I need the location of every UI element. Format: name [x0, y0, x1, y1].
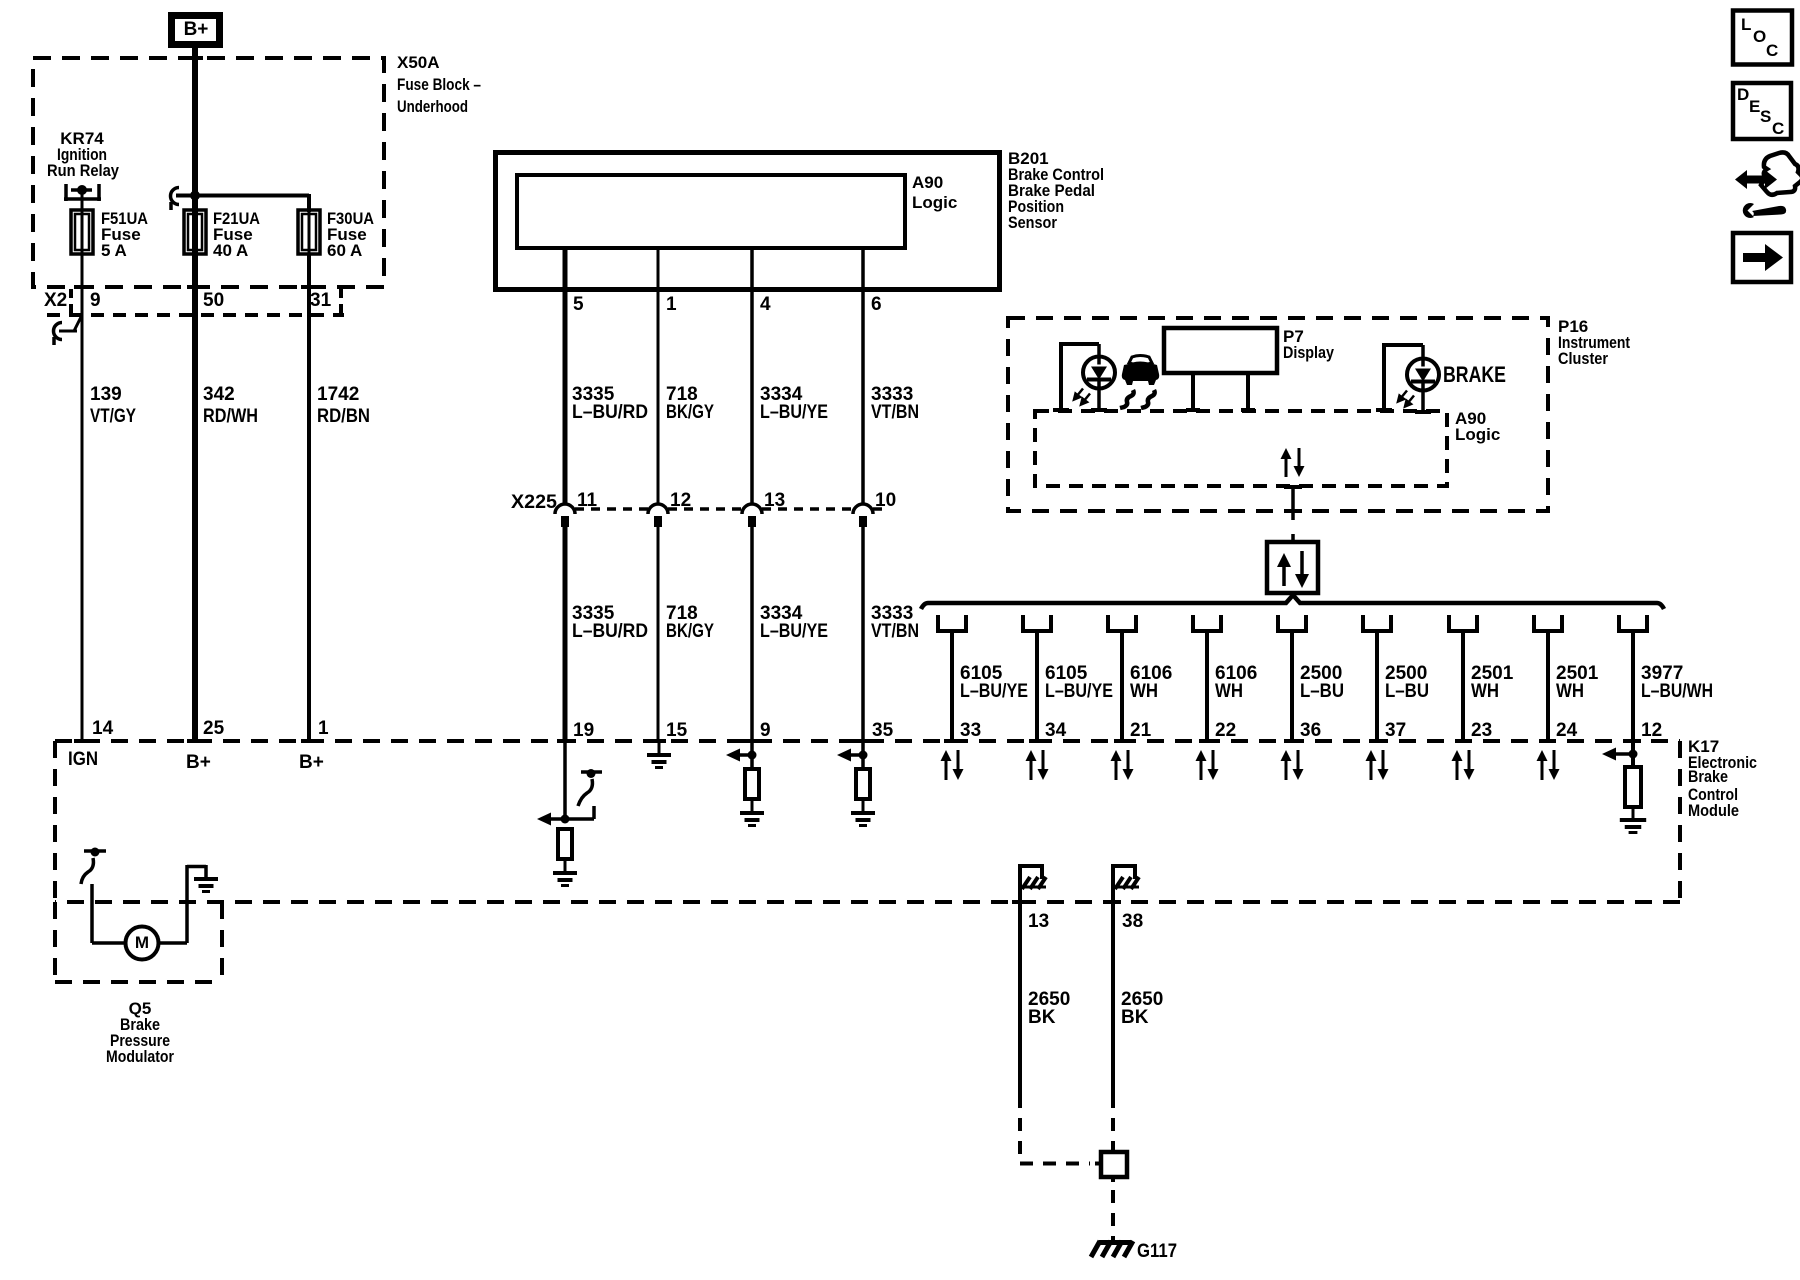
svg-text:14: 14: [92, 718, 114, 739]
svg-text:Modulator: Modulator: [106, 1047, 174, 1066]
logic block A90 dashed box in cluster: [1035, 411, 1447, 486]
wire from B201 pin 1 down to X225: [657, 248, 660, 504]
svg-text:21: 21: [1130, 720, 1152, 741]
svg-text:L–BU/YE: L–BU/YE: [1045, 681, 1113, 702]
BRAKE indicator lamp bracket: [1382, 343, 1423, 409]
label wire 2500 L–BU: [1300, 663, 1344, 702]
ground below pin 9: [740, 811, 764, 827]
tick at wire crossing K17 edge: [744, 739, 760, 743]
label wire 3334 L-BU/YE lower: [760, 603, 828, 642]
display P7 legs to A90: [1186, 373, 1255, 412]
svg-text:WH: WH: [1130, 681, 1158, 702]
pin 24 label at K17: [1556, 720, 1578, 741]
arrow and junction at pin 19: [537, 813, 594, 826]
ABS indicator lamp bracket: [1059, 342, 1099, 409]
tick at wire 342 crossing X50A bottom: [187, 285, 203, 289]
svg-text:BK: BK: [1028, 1007, 1056, 1028]
wire from B201 pin 4 down to X225: [750, 248, 754, 504]
label wire 3333 VT/BN upper: [871, 384, 919, 423]
display P7 box: [1164, 328, 1277, 373]
svg-text:24: 24: [1556, 720, 1578, 741]
svg-text:WH: WH: [1215, 681, 1243, 702]
label Q5 Brake Pressure Modulator: [106, 999, 174, 1066]
svg-text:A90: A90: [912, 173, 943, 192]
splice box node: [1095, 1147, 1127, 1182]
svg-text:15: 15: [666, 720, 688, 741]
label F51UA Fuse 5 A: [101, 209, 148, 260]
svg-text:1742: 1742: [317, 384, 359, 405]
svg-text:BK: BK: [1121, 1007, 1149, 1028]
ground at Q5 motor return: [194, 877, 218, 893]
label K17 Electronic Brake Control Module: [1688, 737, 1757, 820]
fuse F30UA: [298, 210, 320, 254]
tick at wire 1742 crossing X50A bottom: [301, 285, 317, 289]
resistor below pin 35: [856, 769, 870, 799]
wire 1742 from fuse F30UA down: [307, 254, 311, 741]
connector X225 terminal at wire 13: [742, 504, 762, 527]
tick at wire crossing K17 edge: [557, 739, 573, 743]
label KR74 Ignition Run Relay: [47, 129, 119, 180]
label wire 6106 WH: [1215, 663, 1257, 702]
svg-text:B+: B+: [299, 752, 324, 773]
svg-text:L–BU/YE: L–BU/YE: [760, 621, 828, 642]
wire 139 jog and terminal curl below X2: [54, 315, 83, 345]
diagnostic car and wrench icon: [1735, 152, 1800, 218]
module K17 dashed box: [55, 741, 1680, 902]
tick at bus drop crossing K17 edge: [1625, 739, 1641, 743]
ground below pin 12: [1620, 818, 1646, 834]
label wire 2501 WH: [1471, 663, 1514, 702]
svg-text:L–BU/RD: L–BU/RD: [572, 621, 648, 642]
svg-text:BRAKE: BRAKE: [1443, 362, 1506, 387]
bus drop terminal bracket at pin 22: [1191, 615, 1223, 631]
wire 6106 from bus to K17 pin 22: [1205, 631, 1209, 741]
pin 19 label at K17: [573, 720, 594, 741]
connector X2 right end cap: [339, 289, 343, 313]
wire 2650 dashed to splice from pin 38: [1111, 1095, 1115, 1147]
label A90 Logic inside B201: [912, 173, 957, 212]
label X2: [44, 290, 67, 311]
pin 15 label at K17: [666, 720, 688, 741]
svg-text:WH: WH: [1556, 681, 1584, 702]
dashed wire splice to ground G117: [1111, 1190, 1115, 1240]
svg-text:RD/WH: RD/WH: [203, 406, 258, 427]
fuse block X50A dashed box: [33, 58, 384, 287]
wire from X225 down to module K17: [861, 526, 865, 741]
bidirectional arrows below pin 37: [1366, 750, 1389, 780]
svg-text:L–BU: L–BU: [1300, 681, 1344, 702]
DESC reference box: [1733, 83, 1791, 139]
svg-text:L–BU: L–BU: [1385, 681, 1429, 702]
case ground hook at pin 38: [1111, 864, 1139, 902]
pin 13 label: [1028, 911, 1049, 932]
ABS indicator LED: [1074, 356, 1115, 405]
svg-text:5: 5: [573, 294, 584, 315]
wire 139 from fuse F51UA down to X2: [81, 254, 84, 316]
connector X225 dashed links: [575, 507, 886, 511]
label wire 2501 WH: [1556, 663, 1599, 702]
wire motor to ground riser: [158, 865, 206, 943]
tick at bus drop crossing K17 edge: [944, 739, 960, 743]
svg-text:B+: B+: [184, 19, 209, 40]
logic block A90 inner box of B201: [517, 175, 905, 248]
svg-text:Fuse Block –: Fuse Block –: [397, 75, 481, 94]
next page arrow box: [1733, 233, 1791, 282]
arrow junction at pin 9 internal: [726, 741, 757, 769]
wire 139 down to module pin 14: [81, 316, 84, 741]
bus drop terminal bracket at pin 36: [1276, 615, 1308, 631]
svg-text:D: D: [1737, 85, 1749, 104]
pin 23 label at K17: [1471, 720, 1492, 741]
BRAKE indicator LED: [1398, 358, 1439, 407]
svg-text:4: 4: [760, 294, 771, 315]
svg-text:Sensor: Sensor: [1008, 213, 1057, 232]
label X225: [511, 492, 557, 513]
svg-text:B+: B+: [186, 752, 211, 773]
wire 2500 from bus to K17 pin 36: [1290, 631, 1294, 741]
case ground hook at pin 13: [1018, 864, 1046, 902]
wire from X225 down to module K17: [657, 526, 660, 741]
svg-text:6: 6: [871, 294, 882, 315]
svg-text:M: M: [135, 933, 149, 952]
svg-text:1: 1: [666, 294, 677, 315]
svg-text:RD/BN: RD/BN: [317, 406, 370, 427]
svg-text:L–BU/RD: L–BU/RD: [572, 402, 648, 423]
wire from X225 down to module K17: [750, 526, 754, 741]
tick at bus drop crossing K17 edge: [1455, 739, 1471, 743]
label F30UA Fuse 60 A: [327, 209, 374, 260]
node B+ battery feed terminal box: [172, 16, 220, 45]
tick at wire crossing K17 edge: [650, 739, 666, 743]
pin 1 label: [318, 718, 329, 739]
connector X225 terminal at wire 12: [648, 504, 668, 527]
svg-text:Display: Display: [1283, 343, 1334, 362]
label B+ at pin 25: [186, 752, 211, 773]
pin 4 label at B201: [760, 294, 771, 315]
serial data arrows inside A90: [1281, 448, 1305, 477]
bus drop terminal bracket at pin 37: [1361, 615, 1393, 631]
svg-text:VT/BN: VT/BN: [871, 402, 919, 423]
svg-text:38: 38: [1122, 911, 1143, 932]
label A90 Logic in cluster: [1455, 409, 1500, 444]
label wire 3977 L–BU/WH: [1641, 663, 1713, 702]
connector X2 lower dashed line: [47, 313, 344, 317]
tick at bus drop crossing K17 edge: [1369, 739, 1385, 743]
label wire 3335 L-BU/RD lower: [572, 603, 648, 642]
svg-text:5 A: 5 A: [101, 241, 127, 260]
svg-text:C: C: [1766, 41, 1778, 60]
svg-text:IGN: IGN: [68, 749, 98, 770]
svg-text:Cluster: Cluster: [1558, 349, 1608, 368]
svg-text:L–BU/YE: L–BU/YE: [960, 681, 1028, 702]
svg-text:50: 50: [203, 290, 224, 311]
svg-text:X2: X2: [44, 290, 67, 311]
fuse F21UA: [184, 210, 206, 254]
relay KR74 contact symbol: [64, 184, 101, 201]
wire 2501 from bus to K17 pin 24: [1546, 631, 1550, 741]
label G117: [1137, 1241, 1177, 1262]
bidirectional arrows below pin 23: [1452, 750, 1475, 780]
pin 33 label at K17: [960, 720, 981, 741]
svg-text:12: 12: [1641, 720, 1662, 741]
resistor below pin 12: [1625, 767, 1641, 807]
wire relay to fuse F51UA: [81, 193, 84, 212]
svg-text:35: 35: [872, 720, 894, 741]
ground below pin 35: [851, 811, 875, 827]
pin 11 label at X225: [577, 490, 598, 511]
wire branch from B+ wire to fuse F30UA: [176, 194, 309, 212]
bus drop terminal bracket at pin 21: [1106, 615, 1138, 631]
svg-text:L: L: [1741, 15, 1751, 34]
svg-text:VT/BN: VT/BN: [871, 621, 919, 642]
svg-text:25: 25: [203, 718, 225, 739]
label B+ at pin 1: [299, 752, 324, 773]
pin 31 label at X2: [310, 290, 332, 311]
svg-text:Module: Module: [1688, 801, 1739, 820]
svg-text:E: E: [1749, 97, 1760, 116]
svg-text:X225: X225: [511, 492, 557, 513]
bidirectional arrows below pin 21: [1111, 750, 1134, 780]
label P16 Instrument Cluster: [1558, 317, 1630, 368]
tick at wire crossing K17 edge: [1105, 900, 1121, 904]
wire 2501 from bus to K17 pin 23: [1461, 631, 1465, 741]
pin 13 label at X225: [764, 490, 785, 511]
label wire 6105 L–BU/YE: [960, 663, 1028, 702]
tick at bus drop crossing K17 edge: [1199, 739, 1215, 743]
pin 1 label at B201: [666, 294, 677, 315]
ground below pin 19 resistor: [553, 871, 577, 887]
pin 21 label at K17: [1130, 720, 1152, 741]
pin 38 label: [1122, 911, 1143, 932]
tick at wire 139 crossing X50A bottom: [74, 285, 90, 289]
wire 3977 from bus to K17 pin 12: [1631, 631, 1635, 741]
bus drop terminal bracket at pin 23: [1447, 615, 1479, 631]
svg-text:O: O: [1753, 27, 1766, 46]
wire to ground below pin 9: [751, 799, 754, 811]
label wire 342 RD/WH: [203, 384, 258, 427]
svg-text:Logic: Logic: [1455, 425, 1500, 444]
svg-text:23: 23: [1471, 720, 1492, 741]
wire to ground below pin 35: [862, 799, 865, 811]
label wire 2650 BK at pin 13: [1028, 989, 1070, 1028]
connector X225 terminal at wire 10: [853, 504, 873, 527]
BRAKE LED wire to A90 logic: [1376, 391, 1431, 414]
pin 25 label: [203, 718, 225, 739]
svg-text:Underhood: Underhood: [397, 97, 468, 116]
wire resistor to ground pin 19: [564, 859, 567, 871]
wire from B201 pin 6 down to X225: [861, 248, 865, 504]
wire 6106 from bus to K17 pin 21: [1120, 631, 1124, 741]
ground G117 symbol: [1091, 1241, 1133, 1257]
pin 35 label at K17: [872, 720, 894, 741]
svg-text:WH: WH: [1471, 681, 1499, 702]
fuse F51UA: [71, 210, 93, 254]
svg-text:34: 34: [1045, 720, 1067, 741]
svg-text:33: 33: [960, 720, 981, 741]
label wire 718 BK/GY upper: [666, 384, 714, 423]
instrument cluster P16 dashed box: [1008, 318, 1548, 511]
label wire 3335 L-BU/RD upper: [572, 384, 648, 423]
svg-text:X50A: X50A: [397, 53, 440, 72]
label X50A Fuse Block Underhood: [397, 53, 481, 116]
pin 10 label at X225: [875, 490, 896, 511]
svg-text:19: 19: [573, 720, 594, 741]
bus drop terminal bracket at pin 33: [936, 615, 968, 631]
wire 2650 BK solid from pin 13: [1018, 902, 1022, 1095]
svg-text:60 A: 60 A: [327, 241, 362, 260]
svg-text:BK/GY: BK/GY: [666, 621, 714, 642]
label B201 Brake Control Brake Pedal Position Sensor: [1008, 149, 1104, 232]
tick at bus drop crossing K17 edge: [1114, 739, 1130, 743]
svg-text:139: 139: [90, 384, 122, 405]
ground at pin 15 internal: [647, 741, 671, 769]
bus drop terminal bracket at pin 34: [1021, 615, 1053, 631]
svg-text:S: S: [1760, 107, 1771, 126]
label IGN at pin 14: [68, 749, 98, 770]
svg-text:Logic: Logic: [912, 193, 957, 212]
bidirectional arrows below pin 24: [1537, 750, 1560, 780]
connector X2 left end cap: [69, 289, 73, 313]
svg-text:L–BU/YE: L–BU/YE: [760, 402, 828, 423]
bidirectional arrows below pin 33: [941, 750, 964, 780]
label F21UA Fuse 40 A: [213, 209, 260, 260]
wire 6105 from bus to K17 pin 33: [950, 631, 954, 741]
tick at B+ wire crossing X50A top edge: [187, 56, 203, 60]
svg-text:40 A: 40 A: [213, 241, 248, 260]
pin 50 label at X2: [203, 290, 224, 311]
svg-text:1: 1: [318, 718, 329, 739]
svg-text:36: 36: [1300, 720, 1321, 741]
connector X225 terminal at wire 11: [555, 504, 575, 527]
label wire 1742 RD/BN: [317, 384, 370, 427]
svg-text:9: 9: [90, 290, 101, 311]
wire from B201 pin 5 down to X225: [563, 248, 568, 504]
pump switch inside K17 for Q5: [81, 848, 106, 885]
LOC reference box: [1733, 11, 1792, 65]
serial data bus line: [921, 595, 1664, 609]
svg-text:BK/GY: BK/GY: [666, 402, 714, 423]
label wire 2650 BK at pin 38: [1121, 989, 1163, 1028]
arrow junction at pin 35 internal: [837, 741, 868, 769]
tick at bus drop crossing K17 edge: [1029, 739, 1045, 743]
modulator Q5 dashed box: [55, 902, 222, 982]
resistor below pin 9: [745, 769, 759, 799]
label P7 Display: [1283, 327, 1334, 362]
tick at bus drop crossing K17 edge: [1284, 739, 1300, 743]
pin 9 label at X2: [90, 290, 101, 311]
wire to ground below pin 12: [1632, 807, 1635, 818]
pin 5 label at B201: [573, 294, 584, 315]
brake signal switch internal at pin 19: [565, 741, 602, 819]
label BRAKE: [1443, 362, 1506, 387]
pin 22 label at K17: [1215, 720, 1236, 741]
resistor below pin 19 switch: [558, 829, 572, 859]
wire 6105 from bus to K17 pin 34: [1035, 631, 1039, 741]
svg-text:37: 37: [1385, 720, 1406, 741]
pin 12 label at X225: [670, 490, 691, 511]
arrow junction at pin 12 internal: [1602, 741, 1638, 768]
wire 2650 BK solid from pin 38: [1111, 902, 1115, 1095]
tick at wire crossing K17 edge: [1012, 900, 1028, 904]
svg-text:22: 22: [1215, 720, 1236, 741]
tick at wire crossing K17 edge: [187, 739, 203, 743]
label wire 139 VT/GY: [90, 384, 136, 427]
tick at wire crossing K17 edge: [74, 739, 90, 743]
pin 34 label at K17: [1045, 720, 1067, 741]
pin 14 label: [92, 718, 114, 739]
tick at bus drop crossing K17 edge: [1540, 739, 1556, 743]
svg-text:9: 9: [760, 720, 771, 741]
svg-text:31: 31: [310, 290, 332, 311]
bidirectional arrows below pin 36: [1281, 750, 1304, 780]
svg-text:L–BU/WH: L–BU/WH: [1641, 681, 1713, 702]
wire switch to motor: [92, 884, 126, 943]
svg-text:VT/GY: VT/GY: [90, 406, 136, 427]
label wire 2500 L–BU: [1385, 663, 1429, 702]
svg-text:Brake: Brake: [1688, 767, 1728, 786]
pin 6 label at B201: [871, 294, 882, 315]
motor M of Q5: [126, 927, 159, 960]
label wire 718 BK/GY lower: [666, 603, 714, 642]
serial data link box: [1267, 542, 1318, 593]
pin 9 label at K17: [760, 720, 771, 741]
traction control car icon: [1120, 356, 1159, 409]
pin 12 label at K17: [1641, 720, 1662, 741]
label wire 6106 WH: [1130, 663, 1172, 702]
bus drop terminal bracket at pin 24: [1532, 615, 1564, 631]
bus drop terminal bracket at pin 12: [1617, 615, 1649, 631]
wire from X225 down to module K17: [563, 526, 568, 741]
in-line connector curl at branch left end: [171, 188, 179, 211]
pin 37 label at K17: [1385, 720, 1406, 741]
ABS LED wire to A90 logic: [1053, 389, 1107, 412]
svg-text:13: 13: [1028, 911, 1049, 932]
component B201 outer box: [496, 153, 1000, 290]
label wire 3333 VT/BN lower: [871, 603, 919, 642]
wire 2650 dashed to splice from pin 13: [1020, 1095, 1090, 1164]
wire 2500 from bus to K17 pin 37: [1375, 631, 1379, 741]
svg-text:C: C: [1772, 119, 1784, 138]
serial data wire through cluster boundary: [1284, 485, 1302, 541]
tick at wire crossing K17 edge: [855, 739, 871, 743]
pin 36 label at K17: [1300, 720, 1321, 741]
label wire 3334 L-BU/YE upper: [760, 384, 828, 423]
serial data arrows inside link box: [1277, 551, 1309, 588]
bidirectional arrows below pin 22: [1196, 750, 1219, 780]
svg-text:G117: G117: [1137, 1241, 1177, 1262]
svg-text:342: 342: [203, 384, 235, 405]
svg-text:Run Relay: Run Relay: [47, 161, 119, 180]
tick at wire crossing K17 edge: [301, 739, 317, 743]
junction dot at B+ branch: [190, 191, 200, 201]
wire from B+ down to fuse F21UA and module pin 25: [192, 48, 198, 741]
label wire 6105 L–BU/YE: [1045, 663, 1113, 702]
bidirectional arrows below pin 34: [1026, 750, 1049, 780]
